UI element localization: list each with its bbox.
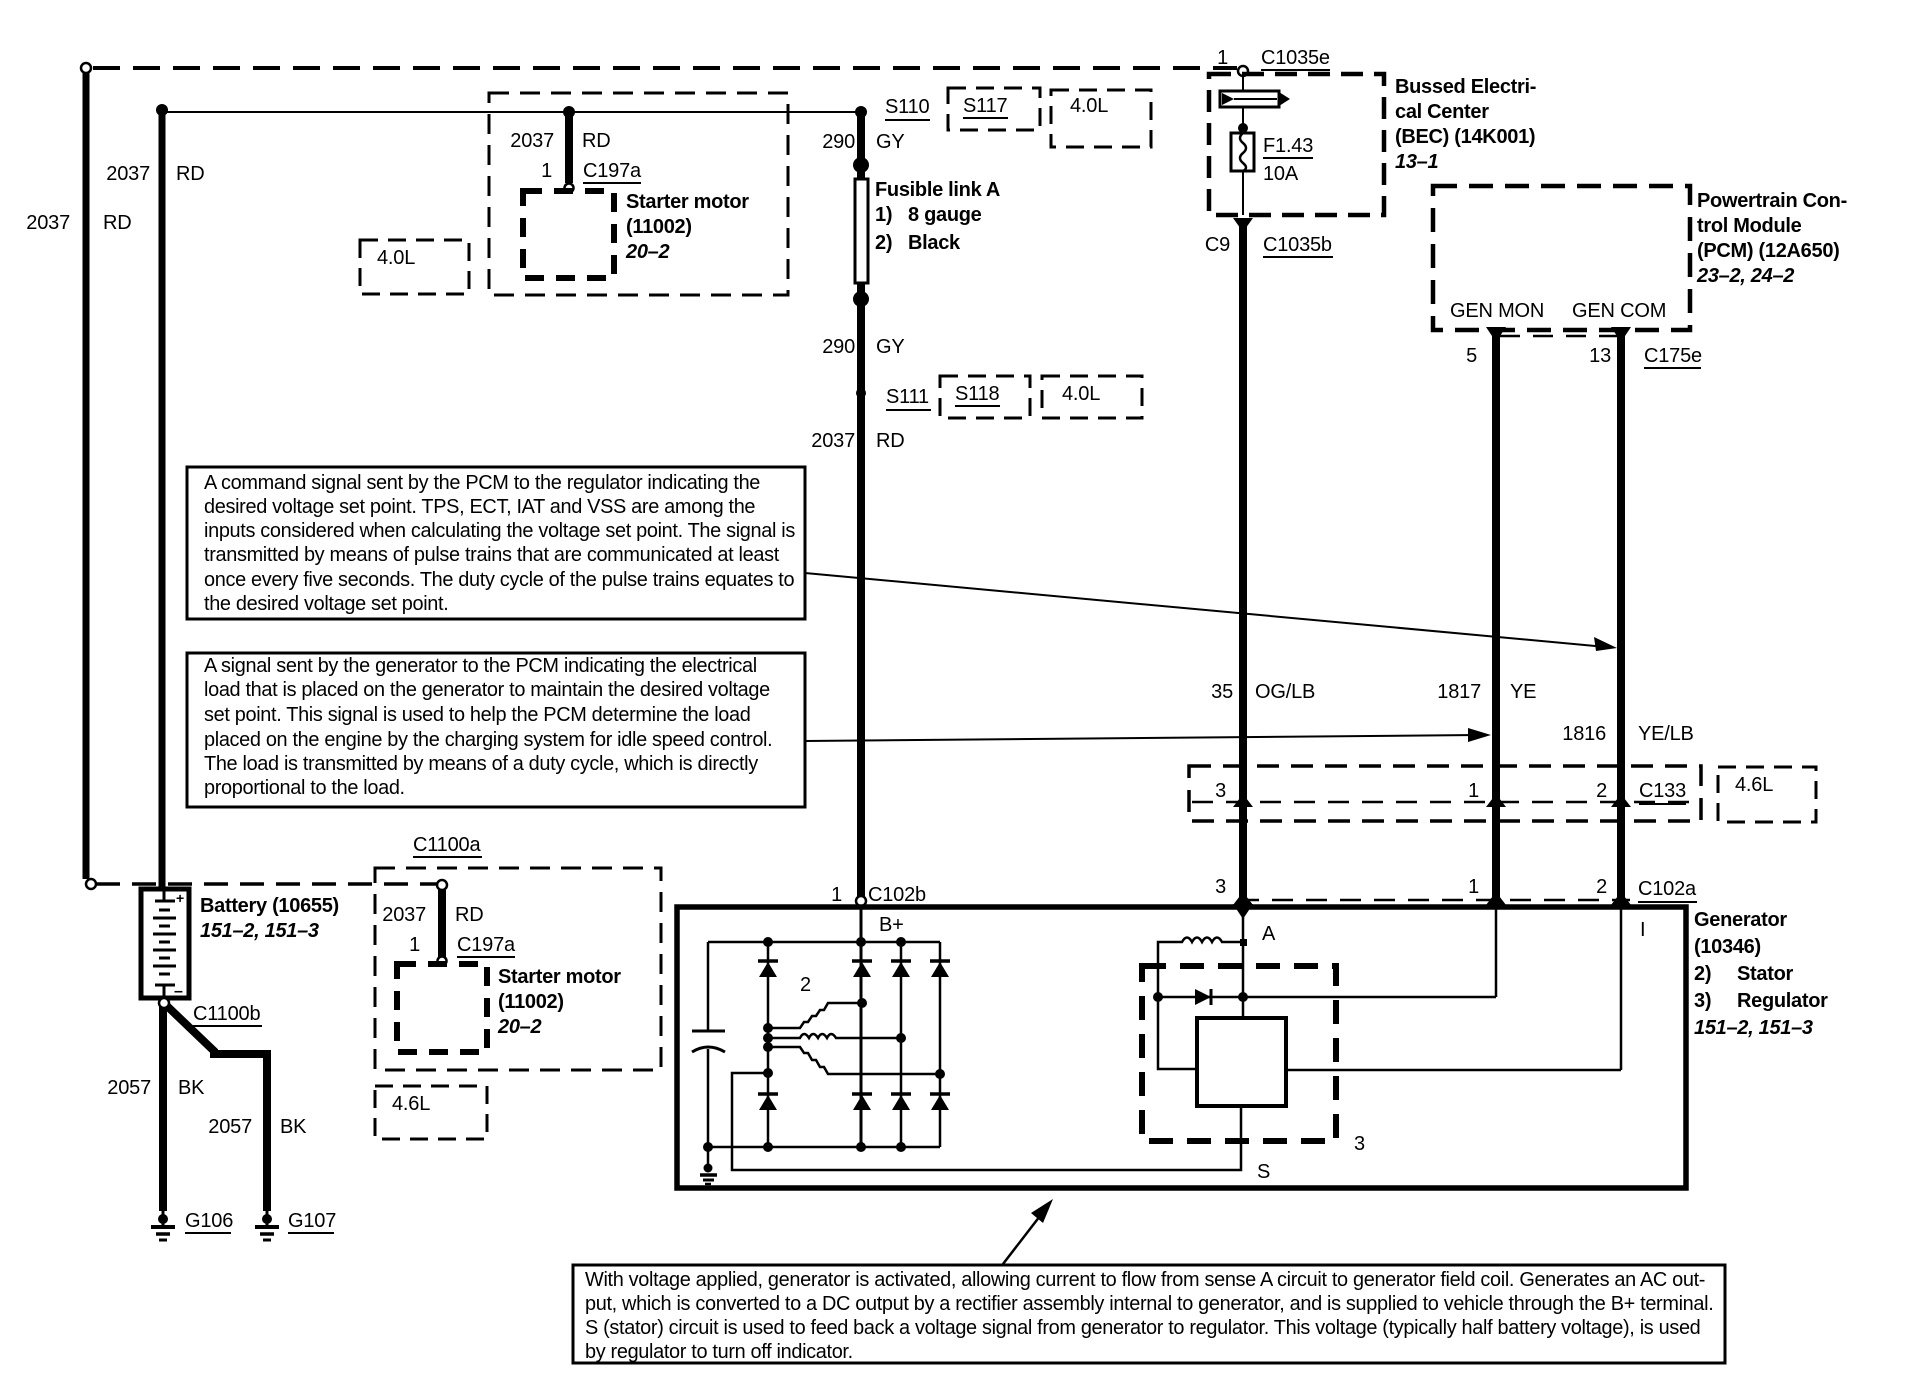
svg-text:RD: RD xyxy=(582,130,611,152)
svg-text:inputs considered when calcula: inputs considered when calculating the v… xyxy=(204,520,795,542)
svg-text:1: 1 xyxy=(541,160,552,182)
svg-text:290: 290 xyxy=(822,336,855,358)
svg-text:C1035b: C1035b xyxy=(1263,234,1332,256)
svg-text:4.0L: 4.0L xyxy=(1062,383,1100,405)
svg-text:The load is transmitted by mea: The load is transmitted by means of a du… xyxy=(204,753,758,775)
svg-text:C175e: C175e xyxy=(1644,345,1702,367)
svg-text:set point. This signal is used: set point. This signal is used to help t… xyxy=(204,704,751,726)
svg-text:2057: 2057 xyxy=(107,1077,151,1099)
svg-text:(BEC) (14K001): (BEC) (14K001) xyxy=(1395,126,1535,148)
svg-text:C197a: C197a xyxy=(457,934,516,956)
svg-text:3: 3 xyxy=(1215,780,1226,802)
svg-text:4.0L: 4.0L xyxy=(377,247,415,269)
svg-text:S: S xyxy=(1257,1161,1270,1183)
svg-text:B+: B+ xyxy=(879,914,904,936)
svg-text:2037: 2037 xyxy=(510,130,554,152)
svg-text:Starter motor: Starter motor xyxy=(498,966,621,988)
svg-text:A command signal sent by the P: A command signal sent by the PCM to the … xyxy=(204,472,760,494)
svg-text:trol Module: trol Module xyxy=(1697,215,1802,237)
svg-text:1: 1 xyxy=(831,884,842,906)
svg-text:2037: 2037 xyxy=(106,163,150,185)
svg-text:151–2, 151–3: 151–2, 151–3 xyxy=(200,920,319,942)
svg-text:2): 2) xyxy=(1694,963,1711,985)
svg-text:3: 3 xyxy=(1215,876,1226,898)
svg-text:OG/LB: OG/LB xyxy=(1255,681,1315,703)
svg-text:BK: BK xyxy=(280,1116,307,1138)
svg-text:C9: C9 xyxy=(1205,234,1230,256)
svg-text:1: 1 xyxy=(409,934,420,956)
svg-text:+: + xyxy=(176,890,184,906)
svg-text:(11002): (11002) xyxy=(498,991,564,1013)
svg-text:Stator: Stator xyxy=(1737,963,1794,985)
svg-text:C102b: C102b xyxy=(868,884,926,906)
svg-text:GY: GY xyxy=(876,336,905,358)
svg-text:2: 2 xyxy=(800,974,811,996)
svg-text:4.0L: 4.0L xyxy=(1070,95,1108,117)
svg-text:YE/LB: YE/LB xyxy=(1638,723,1694,745)
svg-text:C1100b: C1100b xyxy=(193,1003,260,1025)
svg-text:GEN COM: GEN COM xyxy=(1572,300,1666,322)
svg-text:by regulator to turn off indic: by regulator to turn off indicator. xyxy=(585,1341,853,1363)
svg-text:10A: 10A xyxy=(1263,163,1299,185)
svg-text:C1035e: C1035e xyxy=(1261,47,1330,69)
svg-text:3: 3 xyxy=(1354,1133,1365,1155)
svg-text:35: 35 xyxy=(1211,681,1233,703)
svg-text:Starter motor: Starter motor xyxy=(626,191,749,213)
svg-text:23–2, 24–2: 23–2, 24–2 xyxy=(1696,265,1794,287)
svg-text:1816: 1816 xyxy=(1562,723,1606,745)
svg-text:2037: 2037 xyxy=(26,212,70,234)
svg-text:Powertrain Con-: Powertrain Con- xyxy=(1697,190,1847,212)
svg-text:RD: RD xyxy=(876,430,905,452)
svg-text:2): 2) xyxy=(875,232,892,254)
svg-text:cal Center: cal Center xyxy=(1395,101,1489,123)
svg-text:RD: RD xyxy=(176,163,205,185)
svg-text:20–2: 20–2 xyxy=(625,241,669,263)
svg-text:put, which is converted to a D: put, which is converted to a DC output b… xyxy=(585,1293,1713,1315)
svg-text:Regulator: Regulator xyxy=(1737,990,1828,1012)
svg-text:A: A xyxy=(1262,923,1276,945)
svg-text:2: 2 xyxy=(1596,780,1607,802)
svg-text:1: 1 xyxy=(1217,47,1228,69)
svg-text:transmitted by means of pulse: transmitted by means of pulse trains tha… xyxy=(204,544,780,566)
svg-text:1: 1 xyxy=(1468,780,1479,802)
svg-text:S (stator) circuit is used to: S (stator) circuit is used to feed back … xyxy=(585,1317,1700,1339)
svg-text:5: 5 xyxy=(1466,345,1477,367)
svg-text:C197a: C197a xyxy=(583,160,642,182)
svg-text:4.6L: 4.6L xyxy=(1735,774,1773,796)
svg-text:(11002): (11002) xyxy=(626,216,692,238)
svg-text:RD: RD xyxy=(455,904,484,926)
svg-text:Battery (10655): Battery (10655) xyxy=(200,895,339,917)
svg-text:C133: C133 xyxy=(1639,780,1686,802)
svg-text:2: 2 xyxy=(1596,876,1607,898)
svg-text:S118: S118 xyxy=(955,383,1000,405)
svg-text:YE: YE xyxy=(1510,681,1536,703)
svg-text:placed on the engine by the ch: placed on the engine by the charging sys… xyxy=(204,729,772,751)
svg-text:Generator: Generator xyxy=(1694,909,1787,931)
svg-text:2037: 2037 xyxy=(382,904,426,926)
svg-text:Bussed Electri-: Bussed Electri- xyxy=(1395,76,1536,98)
svg-text:20–2: 20–2 xyxy=(497,1016,541,1038)
svg-text:1: 1 xyxy=(1468,876,1479,898)
svg-text:GY: GY xyxy=(876,131,905,153)
svg-text:With voltage applied, generato: With voltage applied, generator is activ… xyxy=(585,1269,1705,1291)
svg-text:desired voltage set point. TPS: desired voltage set point. TPS, ECT, IAT… xyxy=(204,496,755,518)
svg-text:load that is placed on the gen: load that is placed on the generator to … xyxy=(204,679,770,701)
svg-text:151–2, 151–3: 151–2, 151–3 xyxy=(1694,1017,1813,1039)
svg-text:I: I xyxy=(1640,919,1645,941)
svg-text:3): 3) xyxy=(1694,990,1711,1012)
svg-text:G107: G107 xyxy=(288,1210,336,1232)
svg-text:once every five seconds. The d: once every five seconds. The duty cycle … xyxy=(204,569,794,591)
svg-text:GEN MON: GEN MON xyxy=(1450,300,1544,322)
svg-text:RD: RD xyxy=(103,212,132,234)
svg-text:1): 1) xyxy=(875,204,892,226)
svg-text:BK: BK xyxy=(178,1077,205,1099)
svg-text:1817: 1817 xyxy=(1437,681,1481,703)
svg-text:the desired voltage set point.: the desired voltage set point. xyxy=(204,593,448,615)
svg-text:2057: 2057 xyxy=(208,1116,252,1138)
svg-text:4.6L: 4.6L xyxy=(392,1093,430,1115)
svg-text:8 gauge: 8 gauge xyxy=(908,204,982,226)
svg-text:13: 13 xyxy=(1589,345,1611,367)
svg-text:F1.43: F1.43 xyxy=(1263,135,1313,157)
svg-text:proportional to the load.: proportional to the load. xyxy=(204,777,405,799)
svg-text:Fusible link A: Fusible link A xyxy=(875,179,1000,201)
svg-text:S117: S117 xyxy=(963,95,1008,117)
svg-text:G106: G106 xyxy=(185,1210,233,1232)
svg-text:C102a: C102a xyxy=(1638,878,1697,900)
svg-text:C1100a: C1100a xyxy=(413,834,481,856)
svg-text:Black: Black xyxy=(908,232,961,254)
svg-text:(10346): (10346) xyxy=(1694,936,1761,958)
svg-text:(PCM) (12A650): (PCM) (12A650) xyxy=(1697,240,1840,262)
svg-text:A signal sent by the generator: A signal sent by the generator to the PC… xyxy=(204,655,757,677)
svg-text:S111: S111 xyxy=(886,386,929,408)
svg-text:290: 290 xyxy=(822,131,855,153)
svg-text:2037: 2037 xyxy=(811,430,855,452)
svg-text:S110: S110 xyxy=(885,96,930,118)
svg-text:13–1: 13–1 xyxy=(1395,151,1438,173)
svg-text:–: – xyxy=(174,983,183,1000)
